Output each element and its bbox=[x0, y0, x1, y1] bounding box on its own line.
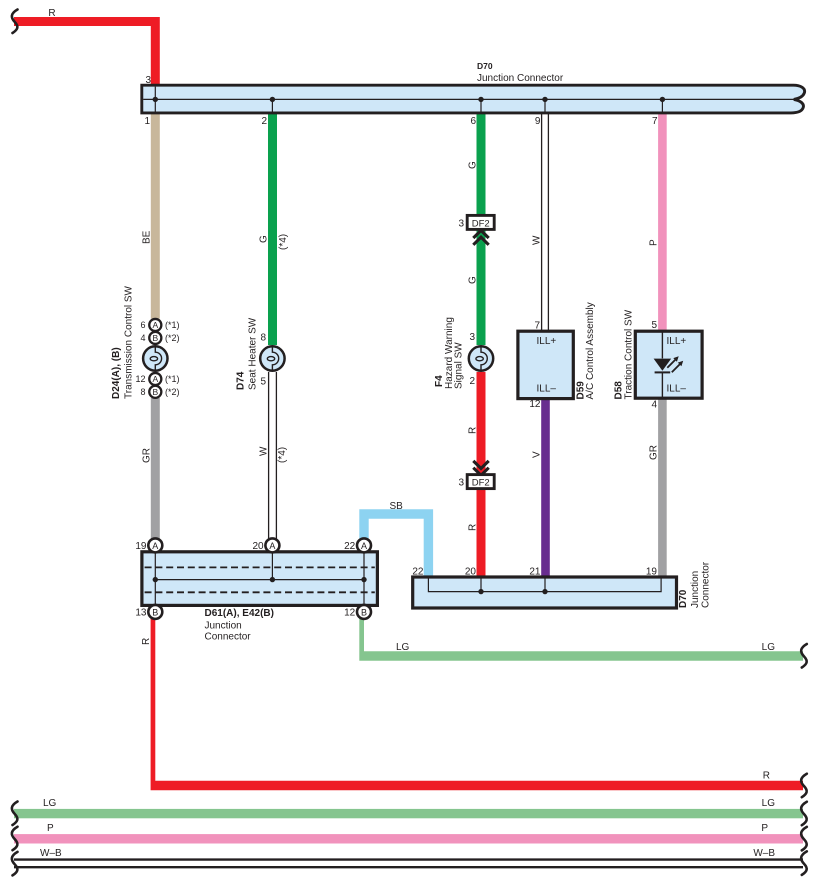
break symbol right end W-B bus bbox=[801, 851, 807, 875]
svg-text:A: A bbox=[152, 374, 158, 384]
upper junction connector D70 bar bbox=[142, 85, 805, 113]
svg-text:7: 7 bbox=[652, 116, 658, 127]
wire BE (pin 1 to transmission SW) bbox=[151, 110, 160, 319]
svg-text:2: 2 bbox=[469, 376, 475, 387]
svg-text:V: V bbox=[532, 451, 543, 458]
svg-text:1: 1 bbox=[144, 116, 150, 127]
wire V (D59 pin 12 to lower D70 pin 21) bbox=[541, 398, 550, 579]
junction dot pin 21 (lower D70) bbox=[542, 589, 547, 594]
seat heater SW bulb bbox=[260, 346, 284, 370]
traction control SW D58 box bbox=[635, 331, 702, 398]
svg-text:A: A bbox=[361, 541, 367, 551]
svg-text:B: B bbox=[152, 333, 158, 343]
tap line pin 21 (lower D70) bbox=[544, 579, 546, 592]
svg-text:8: 8 bbox=[260, 333, 266, 344]
transmission control SW D24 pin 8B bbox=[140, 386, 179, 398]
connect-symbol DF2 upper box bbox=[458, 215, 494, 229]
bus line (D61) bbox=[155, 579, 364, 581]
svg-text:7: 7 bbox=[534, 321, 540, 332]
break symbol right end P bus bbox=[801, 827, 807, 851]
svg-text:22: 22 bbox=[412, 567, 424, 578]
svg-text:A: A bbox=[269, 541, 275, 551]
wire G hazard (pin 6 down) bbox=[477, 110, 486, 345]
svg-text:D70: D70 bbox=[678, 589, 689, 608]
wire P (pin 7 to D58 pin 5) bbox=[658, 110, 667, 332]
internal bus (lower D70) bbox=[428, 579, 661, 592]
junction dot pin 7 bbox=[660, 97, 665, 102]
tap line pin 20 bbox=[271, 553, 273, 580]
bar tap line pin 6 bbox=[480, 99, 482, 111]
svg-text:D70: D70 bbox=[477, 61, 493, 71]
dashed line upper (D61) bbox=[145, 566, 375, 568]
svg-text:(*1): (*1) bbox=[165, 320, 180, 330]
svg-text:GR: GR bbox=[649, 445, 660, 460]
wire LG (pin 12B down and right to edge) bbox=[359, 618, 803, 661]
svg-text:Transmission Control SW: Transmission Control SW bbox=[124, 285, 135, 399]
tap line pin 22/12 bbox=[363, 553, 365, 604]
svg-text:P: P bbox=[761, 823, 768, 834]
svg-text:GR: GR bbox=[142, 448, 153, 463]
svg-text:20: 20 bbox=[252, 541, 264, 552]
LED symbol (D58) bbox=[654, 356, 684, 372]
wire SB (pin 22A to lower D70 pin 22) bbox=[364, 514, 428, 578]
junction dot pin 1 bbox=[153, 97, 158, 102]
pin circle 12B bbox=[344, 605, 371, 619]
junction connector D70 lower box bbox=[413, 577, 677, 608]
svg-text:LG: LG bbox=[762, 642, 776, 653]
break symbol left end LG bus bbox=[12, 802, 18, 826]
svg-text:W–B: W–B bbox=[753, 848, 775, 859]
svg-text:Connector: Connector bbox=[701, 561, 712, 608]
svg-text:SB: SB bbox=[390, 501, 404, 512]
svg-text:B: B bbox=[152, 607, 158, 617]
svg-text:B: B bbox=[152, 387, 158, 397]
svg-text:(*2): (*2) bbox=[165, 333, 180, 343]
svg-text:12: 12 bbox=[344, 608, 356, 619]
connect-symbol DF2 lower box bbox=[458, 475, 494, 489]
junction dot pin 20 bbox=[270, 577, 275, 582]
bar tap line pin3/1 bbox=[154, 87, 156, 112]
svg-text:R: R bbox=[141, 638, 152, 645]
junction dot pin 22 bbox=[361, 577, 366, 582]
tap line pin 19/13 bbox=[154, 553, 156, 604]
svg-text:9: 9 bbox=[535, 116, 541, 127]
wire R hazard (bulb down to lower D70 pin 20) bbox=[477, 372, 486, 579]
svg-text:ILL+: ILL+ bbox=[667, 336, 687, 347]
junction dot pin 2 bbox=[270, 97, 275, 102]
svg-text:2: 2 bbox=[261, 116, 267, 127]
svg-text:5: 5 bbox=[260, 377, 266, 388]
svg-text:D74: D74 bbox=[236, 371, 247, 390]
A/C control assembly D59 box bbox=[518, 331, 573, 398]
break symbol left end of R wire bbox=[12, 10, 18, 34]
break symbol right end of R wire bbox=[801, 774, 807, 798]
svg-text:R: R bbox=[763, 771, 770, 782]
break symbol right end of LG wire bbox=[801, 644, 807, 668]
svg-text:LG: LG bbox=[396, 642, 410, 653]
svg-text:R: R bbox=[468, 427, 479, 434]
break symbol right end LG bus bbox=[801, 802, 807, 826]
junction dot pin 20 (lower D70) bbox=[478, 589, 483, 594]
pin circle 13B bbox=[135, 605, 162, 619]
pin circle 19A bbox=[135, 538, 162, 552]
bus wire P bottom bbox=[14, 834, 803, 843]
wire W (pin 9 to D59 pin 7) bbox=[541, 110, 549, 332]
svg-text:20: 20 bbox=[465, 567, 477, 578]
svg-text:Seat Heater SW: Seat Heater SW bbox=[248, 317, 259, 390]
svg-text:Connector: Connector bbox=[205, 632, 252, 643]
svg-text:Junction: Junction bbox=[205, 621, 242, 632]
bus wire LG bottom bbox=[14, 809, 803, 818]
transmission control SW D24 pin 12A bbox=[135, 373, 179, 385]
wire G seat heater (pin 2 down) bbox=[268, 110, 277, 345]
svg-text:B: B bbox=[361, 607, 367, 617]
internal lead lines (D58) bbox=[661, 331, 663, 398]
wire R (pin 13B down and right to edge) bbox=[151, 618, 803, 790]
svg-text:4: 4 bbox=[140, 333, 145, 343]
wire GR (D58 pin 4 to lower D70 pin 19) bbox=[658, 398, 667, 579]
svg-text:W: W bbox=[532, 235, 543, 245]
hazard warning signal SW bulb bbox=[469, 346, 493, 370]
svg-text:D24(A), (B): D24(A), (B) bbox=[111, 347, 122, 399]
svg-text:5: 5 bbox=[651, 320, 657, 331]
svg-text:R: R bbox=[468, 524, 479, 531]
svg-text:8: 8 bbox=[140, 387, 145, 397]
svg-text:P: P bbox=[649, 239, 660, 246]
break symbol left end W-B bus bbox=[12, 852, 18, 876]
svg-text:A: A bbox=[152, 320, 158, 330]
svg-text:ILL–: ILL– bbox=[537, 383, 557, 394]
svg-text:12: 12 bbox=[135, 374, 145, 384]
svg-text:A/C Control Assembly: A/C Control Assembly bbox=[585, 302, 596, 399]
bar tap line pin 7 bbox=[661, 99, 663, 111]
svg-text:G: G bbox=[259, 235, 270, 243]
svg-text:P: P bbox=[47, 823, 54, 834]
svg-text:DF2: DF2 bbox=[472, 478, 490, 489]
svg-text:22: 22 bbox=[344, 541, 356, 552]
bar tap line pin 2 bbox=[271, 99, 273, 111]
svg-text:ILL–: ILL– bbox=[667, 383, 687, 394]
junction dot pin 19 bbox=[153, 577, 158, 582]
junction dot pin 6 bbox=[478, 97, 483, 102]
wire GR (transmission SW to pin 19A) bbox=[151, 398, 160, 540]
svg-text:4: 4 bbox=[651, 400, 657, 411]
svg-text:LG: LG bbox=[762, 798, 776, 809]
svg-text:Traction Control SW: Traction Control SW bbox=[624, 309, 635, 399]
svg-text:G: G bbox=[468, 161, 479, 169]
svg-text:Signal SW: Signal SW bbox=[454, 342, 465, 389]
svg-text:6: 6 bbox=[470, 116, 476, 127]
bus wire W-B bottom (white wire with black edges) bbox=[14, 859, 803, 868]
bulb lamp transmission control SW bbox=[143, 346, 167, 370]
bar middle bus line bbox=[143, 98, 795, 100]
svg-text:R: R bbox=[48, 8, 55, 19]
tap line pin 20 (lower D70) bbox=[480, 579, 482, 592]
svg-text:(*1): (*1) bbox=[165, 374, 180, 384]
junction dot pin 9 bbox=[542, 97, 547, 102]
transmission control SW D24 pin 4B bbox=[140, 332, 179, 344]
svg-text:(*4): (*4) bbox=[277, 447, 288, 463]
svg-text:(*2): (*2) bbox=[165, 387, 180, 397]
dashed line lower (D61) bbox=[145, 591, 375, 593]
transmission control SW D24 pin 6A bbox=[140, 319, 179, 331]
svg-text:12: 12 bbox=[529, 399, 541, 410]
svg-text:3: 3 bbox=[458, 218, 464, 229]
svg-text:19: 19 bbox=[646, 567, 658, 578]
wire W seat heater (double-line white wire) bbox=[268, 372, 277, 540]
svg-text:Junction: Junction bbox=[690, 571, 701, 608]
svg-text:19: 19 bbox=[135, 541, 147, 552]
svg-text:3: 3 bbox=[458, 478, 464, 489]
svg-text:LG: LG bbox=[43, 798, 57, 809]
svg-text:DF2: DF2 bbox=[472, 218, 490, 229]
svg-text:ILL+: ILL+ bbox=[537, 336, 557, 347]
svg-text:D61(A), E42(B): D61(A), E42(B) bbox=[205, 608, 274, 619]
bar tap line pin 9 bbox=[544, 99, 546, 111]
svg-text:BE: BE bbox=[142, 230, 153, 244]
pin circle 22A bbox=[344, 538, 371, 552]
svg-text:W–B: W–B bbox=[40, 848, 62, 859]
wire R feed from left bbox=[14, 17, 160, 86]
junction connector D61(A) E42(B) box bbox=[142, 552, 378, 606]
svg-text:13: 13 bbox=[135, 608, 147, 619]
svg-text:3: 3 bbox=[469, 332, 475, 343]
svg-text:(*4): (*4) bbox=[278, 234, 289, 250]
break symbol left end P bus bbox=[12, 827, 18, 851]
svg-text:A: A bbox=[152, 541, 158, 551]
chevron arrows above lower DF2 (pointing down) bbox=[473, 461, 488, 475]
svg-text:G: G bbox=[468, 276, 479, 284]
svg-text:6: 6 bbox=[140, 320, 145, 330]
pin circle 20A bbox=[252, 538, 279, 552]
chevron arrows below upper DF2 (pointing up) bbox=[473, 230, 488, 244]
svg-text:W: W bbox=[259, 446, 270, 456]
svg-text:21: 21 bbox=[529, 567, 541, 578]
svg-text:Junction Connector: Junction Connector bbox=[477, 73, 564, 84]
